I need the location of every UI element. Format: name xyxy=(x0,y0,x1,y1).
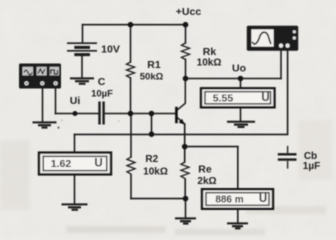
svg-text:R2: R2 xyxy=(145,154,158,165)
svg-text:Uo: Uo xyxy=(232,63,246,75)
svg-text:Re: Re xyxy=(198,163,212,175)
svg-text:10kΩ: 10kΩ xyxy=(197,57,222,68)
svg-text:C: C xyxy=(98,76,106,88)
svg-text:1.62: 1.62 xyxy=(51,158,72,170)
svg-text:10µF: 10µF xyxy=(91,88,113,99)
svg-text:Rk: Rk xyxy=(203,46,217,58)
svg-text:U: U xyxy=(259,193,267,205)
svg-text:886 m: 886 m xyxy=(215,194,243,205)
svg-text:50kΩ: 50kΩ xyxy=(140,72,164,83)
svg-text:Ui: Ui xyxy=(70,95,81,107)
svg-text:5.55: 5.55 xyxy=(213,92,234,104)
svg-text:U: U xyxy=(261,92,269,104)
svg-text:R1: R1 xyxy=(147,59,161,71)
svg-text:2kΩ: 2kΩ xyxy=(197,176,216,187)
svg-text:10kΩ: 10kΩ xyxy=(143,166,168,177)
svg-text:1µF: 1µF xyxy=(303,161,320,172)
svg-text:U: U xyxy=(94,158,102,170)
svg-text:+Ucc: +Ucc xyxy=(176,6,202,18)
svg-text:10V: 10V xyxy=(101,44,120,56)
